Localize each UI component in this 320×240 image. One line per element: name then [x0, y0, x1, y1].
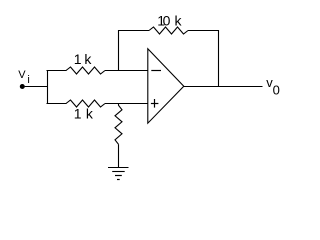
- label vi: [18, 69, 30, 86]
- svg-text:0: 0: [163, 13, 171, 29]
- label v0 (output node): [266, 75, 280, 97]
- label R1 value 1 k: [74, 51, 93, 67]
- resistor Rf 10 k (feedback): [149, 27, 188, 34]
- wire branch to resistor R1: [47, 70, 67, 72]
- resistor R2 1 k (bottom input): [66, 100, 105, 107]
- svg-text:k: k: [86, 106, 94, 122]
- op-amp inverting input minus sign: [151, 70, 161, 72]
- wire branch to resistor R2: [47, 103, 67, 105]
- wire op-amp output to v0: [184, 86, 263, 88]
- svg-text:1: 1: [74, 106, 82, 122]
- wire from vi dot to branch node: [25, 86, 47, 88]
- wire Rf to output node: [188, 31, 219, 87]
- wire feedback left vertical (inverting input to Rf): [119, 31, 150, 71]
- svg-text:i: i: [27, 74, 29, 86]
- op-amp U1 triangle: [148, 49, 184, 123]
- svg-text:k: k: [84, 51, 92, 67]
- wire R1 to op-amp inverting input: [105, 70, 148, 72]
- op-amp noninverting input plus sign: [151, 99, 159, 108]
- label R2 value 1 k: [74, 106, 94, 122]
- wire R2 to op-amp noninverting input: [105, 103, 148, 105]
- svg-text:V: V: [18, 69, 26, 81]
- resistor R3 (vertical to ground): [115, 105, 122, 144]
- wire R3 to ground: [118, 144, 120, 167]
- svg-text:k: k: [175, 13, 183, 29]
- wire junction down to R3: [118, 104, 120, 106]
- svg-text:0: 0: [273, 82, 280, 97]
- svg-text:1: 1: [74, 51, 82, 67]
- wire branch vertical at input: [47, 70, 49, 104]
- node vi (input terminal dot): [20, 84, 25, 89]
- label Rf value 10 k: [157, 13, 182, 29]
- ground: [108, 168, 129, 180]
- resistor R1 1 k (top input): [66, 67, 105, 74]
